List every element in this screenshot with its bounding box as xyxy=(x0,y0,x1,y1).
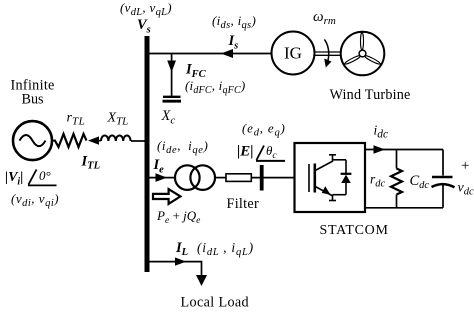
transistor IGBT body bar xyxy=(313,164,316,193)
arrow I_L (pointing right) xyxy=(175,257,186,265)
arrow rotation direction xyxy=(324,39,328,60)
block arrow P_e+jQ_e xyxy=(153,189,180,204)
arrow I_TL (pointing left) xyxy=(88,136,99,144)
svg-text:Local Load: Local Load xyxy=(181,295,250,311)
capacitor C_dc xyxy=(442,150,444,176)
wire bus to transformer xyxy=(149,177,176,179)
svg-text:Wind Turbine: Wind Turbine xyxy=(330,87,411,103)
transistor IGBT emitter with arrow xyxy=(315,187,333,197)
blade lower-right xyxy=(364,55,381,66)
induction generator IG xyxy=(272,32,315,75)
resistor r_dc xyxy=(396,150,398,169)
node E thick bar xyxy=(260,165,264,191)
svg-text:Filter: Filter xyxy=(227,196,260,212)
transformer xyxy=(175,165,200,190)
transistor IGBT collector xyxy=(315,161,333,171)
wire diode branch xyxy=(333,159,347,161)
wire filter to STATCOM xyxy=(251,177,294,179)
wind turbine circle xyxy=(341,32,385,76)
wire inductor to bus xyxy=(131,140,146,142)
svg-text:IG: IG xyxy=(284,44,302,63)
arrow i_dc (pointing right) xyxy=(374,145,386,154)
wire FC branch xyxy=(171,54,173,97)
wire dc bottom xyxy=(365,207,443,209)
filter box xyxy=(226,174,251,182)
svg-text:|E|: |E| xyxy=(237,144,254,160)
svg-text:STATCOM: STATCOM xyxy=(320,223,389,238)
arrow to local load (pointing down) xyxy=(196,275,207,286)
resistor r_TL xyxy=(55,134,87,147)
hub xyxy=(359,50,366,57)
node Vs main bus bar xyxy=(145,36,150,272)
blade up xyxy=(361,33,364,50)
blade lower-left xyxy=(344,55,361,66)
wire local load xyxy=(149,261,202,263)
svg-text:0°: 0° xyxy=(39,168,51,183)
capacitor X_c fixed capacitor xyxy=(163,96,181,98)
wire transformer to filter xyxy=(215,177,226,179)
arrow I_FC (pointing down) xyxy=(167,61,176,73)
infinite bus AC source xyxy=(13,121,52,160)
svg-text:|Vi|: |Vi| xyxy=(5,170,23,188)
shaft xyxy=(315,51,341,53)
arrow I_s (pointing left) xyxy=(221,49,233,58)
svg-text:+: + xyxy=(461,158,469,174)
wire stator (bus to IG) xyxy=(149,53,272,55)
inductor X_TL xyxy=(101,136,131,142)
wire dc top xyxy=(365,149,443,151)
arrow I_e (pointing right) xyxy=(156,173,168,182)
diode (antiparallel) xyxy=(341,173,352,175)
svg-text:Bus: Bus xyxy=(22,92,45,108)
STATCOM box xyxy=(295,143,366,212)
wire source lead xyxy=(52,140,56,142)
transistor IGBT gate bar xyxy=(308,164,310,192)
